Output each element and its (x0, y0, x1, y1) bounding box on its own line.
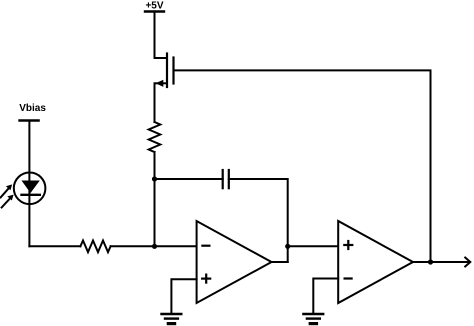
wire U2 inverting input to ground (313, 279, 338, 314)
output arrow (465, 258, 470, 267)
wire U2 output (413, 261, 470, 263)
wire Q1 source to R1 (154, 83, 156, 122)
node inverting input junction (152, 244, 157, 249)
resistor R2 (horizontal) (80, 241, 110, 253)
wire U1 non-inverting input to ground (171, 279, 196, 313)
wire Vbias to photodiode (28, 121, 30, 247)
ground (U1) (162, 314, 182, 324)
wire R1 to inverting node (154, 152, 156, 246)
wire +5V bar to Q1 drain (154, 12, 156, 59)
op-amp U1 (197, 221, 272, 303)
svg-text:+5V: +5V (145, 1, 163, 12)
wire R2 to U1 inverting input (111, 245, 197, 247)
resistor R1 (vertical) (149, 122, 161, 152)
Vbias supply bar (20, 119, 39, 121)
wire C1 to op-amp U1 output (229, 179, 288, 262)
op-amp U2 (338, 221, 413, 303)
wire U1 output node to U2 non-inverting input (288, 245, 339, 247)
wire photodiode to R2 (29, 245, 80, 247)
node U2 output junction (428, 259, 433, 264)
wire feedback node to C1 (155, 178, 223, 180)
node U1 output junction (285, 244, 290, 249)
transistor Q1 (MOSFET) (155, 54, 174, 88)
photodiode D1 (1, 173, 46, 208)
svg-text:Vbias: Vbias (19, 103, 46, 114)
ground (U2) (303, 314, 323, 324)
capacitor C1 (223, 170, 229, 188)
+5V supply bar (145, 10, 164, 12)
wire U1 output (272, 261, 288, 263)
node feedback junction (152, 176, 157, 181)
wire Q1 gate to right vertical bus (174, 70, 431, 262)
